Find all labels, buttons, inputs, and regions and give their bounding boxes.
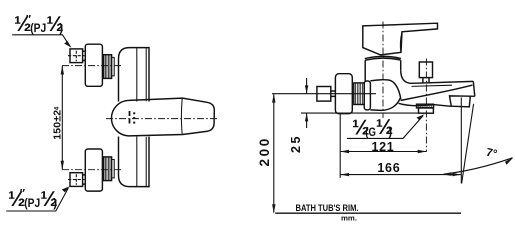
cartridge housing end cap — [364, 81, 370, 110]
faucet body (plan view) — [119, 48, 150, 187]
dome cap — [365, 56, 401, 60]
handle axis centerline — [106, 118, 219, 120]
spout top edge — [412, 81, 473, 83]
spout body transition corner — [401, 70, 412, 83]
top eccentric square fitting — [70, 49, 83, 63]
svg-text:(PJ: (PJ — [24, 198, 40, 210]
svg-text:(PJ: (PJ — [30, 23, 46, 35]
bottom nut ring — [112, 160, 115, 178]
fitting neck — [331, 91, 336, 96]
top inlet axis centerline — [62, 65, 123, 67]
cartridge housing bulge top — [370, 80, 400, 99]
lever handle (side view) — [363, 23, 438, 55]
7 degree arc — [444, 158, 513, 174]
25 dimension — [306, 78, 308, 94]
cartridge axis centerline — [382, 22, 384, 119]
diverter axis centerline — [425, 59, 427, 152]
label ½ (G½) — [352, 116, 393, 140]
bottom inlet axis centerline — [62, 169, 123, 171]
bottom flange — [85, 149, 102, 191]
top nut with ribs — [104, 55, 112, 79]
top label leader line — [12, 35, 70, 47]
svg-text:): ) — [53, 198, 57, 210]
diverter stem — [423, 78, 429, 84]
G½ label leader — [347, 116, 423, 139]
svg-text:25: 25 — [289, 134, 303, 153]
top nut ring — [112, 57, 115, 75]
inlet axis extension line — [272, 93, 376, 95]
handle end cap line — [180, 98, 183, 134]
7 degree slanted line — [462, 104, 474, 184]
bottom nut with ribs — [104, 157, 112, 181]
diverter knob — [419, 62, 432, 78]
body inner line left — [136, 48, 138, 187]
svg-text:(G: (G — [365, 127, 376, 139]
bottom inlet label ½"(PJ½) — [8, 188, 58, 212]
spout blend silhouette line — [401, 85, 473, 100]
top flange — [85, 44, 102, 86]
bottom fitting neck — [83, 175, 86, 184]
166 dimension — [340, 174, 461, 176]
25 lower extension line — [301, 112, 419, 114]
shower hose connection body — [419, 108, 434, 113]
body inner line right — [145, 48, 147, 187]
wall flange (side view) — [335, 74, 352, 114]
bottom label leader line — [6, 188, 68, 211]
top fitting neck — [83, 51, 86, 60]
spout underside — [399, 96, 475, 106]
shower hose connection collar (ribbed) — [417, 104, 434, 108]
handle inner contour — [400, 32, 402, 53]
svg-text:BATH TUB'S RIM.: BATH TUB'S RIM. — [296, 203, 359, 214]
150 dimension line — [61, 66, 63, 169]
spout end face — [473, 81, 475, 96]
spout inner top line — [412, 85, 453, 86]
svg-text:150±2: 150±2 — [52, 110, 64, 140]
svg-text:200: 200 — [257, 136, 272, 166]
7 degree reference vertical — [460, 98, 462, 184]
svg-text:4: 4 — [53, 106, 60, 110]
wall square fitting (side view) — [317, 87, 331, 102]
svg-text:): ) — [388, 127, 392, 139]
handle lever (plan view) — [111, 98, 214, 136]
spout outlet box (aerator) — [450, 96, 471, 107]
top leader arrowhead — [64, 41, 71, 48]
200 dimension line — [273, 94, 275, 213]
121 dimension — [339, 114, 341, 178]
handle emblem dots — [129, 111, 136, 124]
cartridge housing bulge bottom — [370, 98, 400, 110]
svg-text:121: 121 — [372, 140, 395, 154]
body columns under dome — [365, 60, 401, 81]
bottom leader arrowhead — [62, 186, 70, 192]
bottom eccentric square fitting — [70, 173, 83, 187]
svg-text:166: 166 — [377, 161, 400, 175]
top inlet label ½"(PJ½) — [14, 13, 64, 36]
svg-text:): ) — [59, 23, 63, 35]
svg-text:mm.: mm. — [341, 213, 357, 222]
nut with ribs (side view) — [354, 83, 364, 105]
bath tub rim line — [275, 212, 461, 214]
